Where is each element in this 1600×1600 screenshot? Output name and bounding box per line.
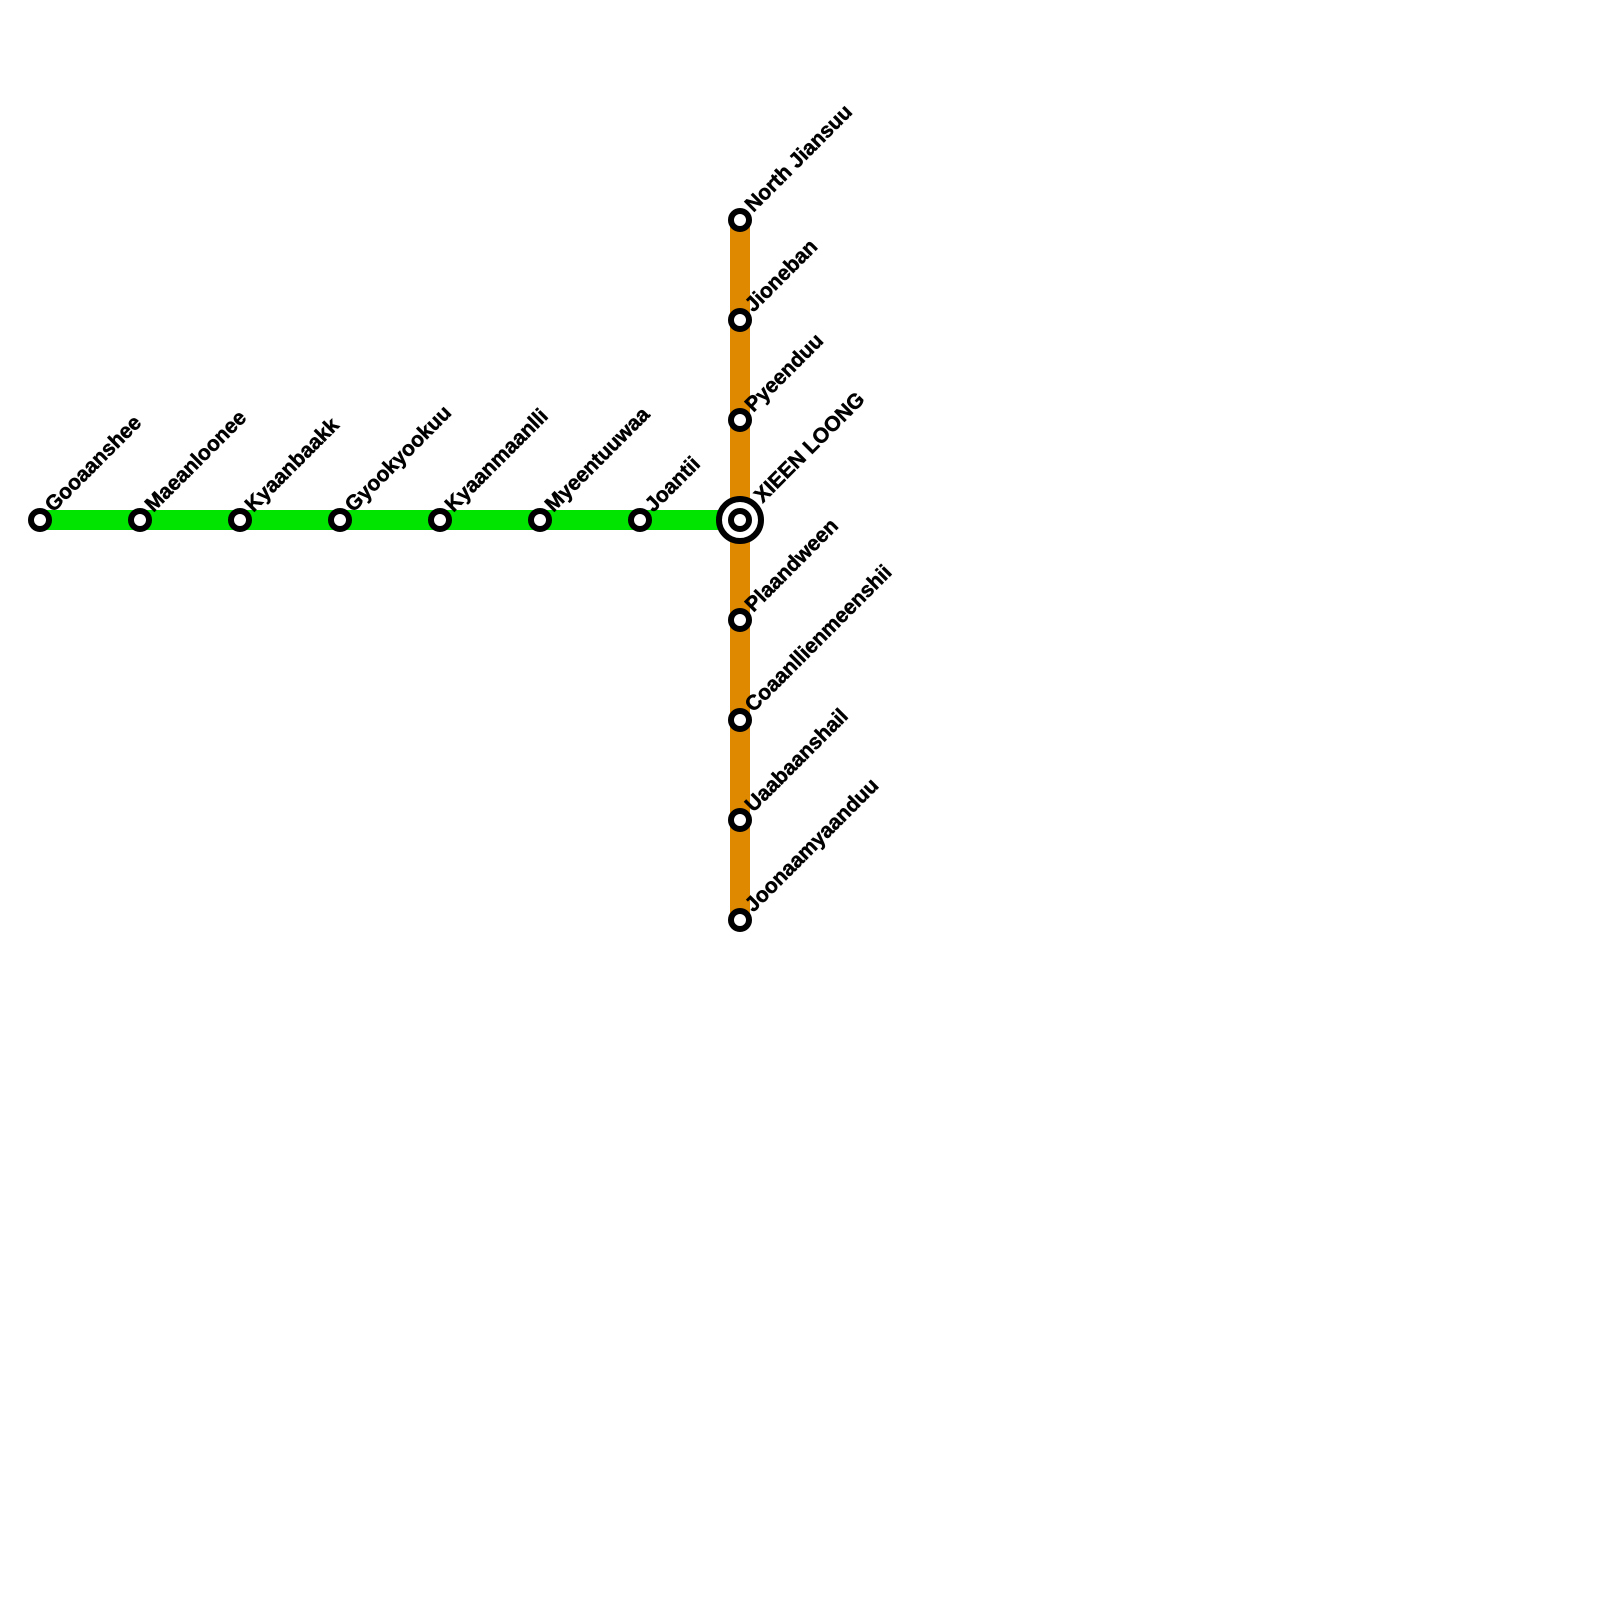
station Joantii [631, 452, 705, 529]
station Jioneban [731, 235, 822, 329]
station Joonaamyaanduu [731, 774, 883, 929]
interchange station XIEEN LOONG [719, 388, 869, 541]
station Myeentuuwaa [531, 403, 655, 529]
orange line (North Jiansuu - Joonaamyaanduu) [730, 220, 750, 920]
station Pyeenduu [731, 329, 828, 429]
station Plaandween [731, 514, 843, 629]
station Maeanloonee [131, 406, 251, 529]
station Kyaanbaakk [231, 413, 344, 529]
station Gyookyookuu [331, 401, 456, 529]
station North Jiansuu [731, 100, 857, 229]
station Gooaanshee [31, 411, 146, 529]
station Uaabaanshail [731, 704, 853, 829]
green line (Gooaanshee - Xieen Loong) [40, 510, 740, 530]
station Kyaanmaanlli [431, 404, 553, 529]
station Coaanllienmeenshii [731, 561, 896, 729]
